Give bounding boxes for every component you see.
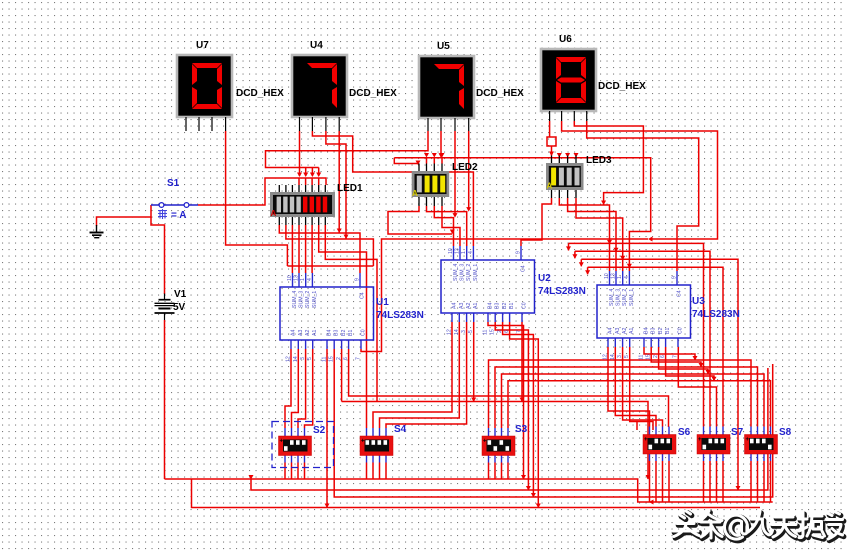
wire S3 bottom pins to rail: [489, 463, 509, 480]
wire U3 B1 drop: [666, 347, 714, 381]
wire bottom rail 1: [165, 479, 773, 502]
svg-text:S1: S1: [167, 178, 180, 189]
wire bottom rail 2: [251, 368, 768, 490]
svg-text:74LS283N: 74LS283N: [538, 286, 586, 297]
wire LED3 pin3 to U3: [568, 198, 616, 271]
svg-text:U7: U7: [196, 40, 209, 51]
svg-text:= A: = A: [171, 210, 186, 221]
bargraph LED2: [412, 162, 478, 206]
wire U4 pin4: [338, 131, 340, 233]
svg-text:A: A: [271, 209, 277, 218]
wire LED1 pin8 to bus: [325, 225, 377, 402]
dip switch S8: [745, 427, 792, 462]
wire U3 A2 to S6: [623, 347, 663, 427]
svg-text:DCD_HEX: DCD_HEX: [349, 88, 397, 99]
wire LED1 pin2 mesh loop: [286, 225, 374, 266]
svg-text:U6: U6: [559, 34, 572, 45]
wire U3 B2 drop: [659, 347, 708, 374]
wire rail S3-S8 row2: [495, 367, 758, 428]
svg-text:74LS283N: 74LS283N: [692, 309, 740, 320]
wire U3 A3 to S6: [615, 347, 656, 427]
wire rail S3-S8 row1: [489, 360, 752, 428]
wire U3 B4 drop: [644, 347, 695, 360]
battery V1: [155, 289, 187, 320]
dip switch S7: [697, 427, 744, 462]
wire adder-output rail to S7 pin1: [569, 243, 704, 426]
wire U1 A1 to S2: [305, 349, 313, 428]
wire stubs rail178 to LED1 pins: [299, 178, 319, 185]
wire LED2 bottom pin2: [427, 206, 467, 246]
bargraph LED3: [546, 155, 612, 198]
wire S1 to ground: [97, 205, 152, 226]
svg-text:S8: S8: [779, 427, 792, 438]
wire U2 B4 down: [488, 322, 524, 479]
wire mesh rail 266: [287, 265, 373, 267]
wire U3 B3 drop: [651, 347, 701, 367]
svg-text:U2: U2: [538, 273, 551, 284]
wire long rail157 to U3: [394, 158, 650, 271]
wire adder-output rail to S7 pin2: [575, 251, 710, 426]
wire LED1 pins3-6 to U1 inputs: [292, 225, 312, 273]
op-amp U1 74LS283N adder: [280, 273, 424, 362]
wire U1 C0 up and right rail239: [361, 239, 648, 352]
svg-text:U4: U4: [310, 40, 323, 51]
watermark 头条 @九天揽梦: [673, 511, 844, 541]
dip switch S2: [279, 425, 326, 463]
wire adder-output rail to S7 pin4: [588, 267, 723, 426]
wire U5 pin4 down: [468, 131, 470, 210]
dip switch S6: [643, 427, 691, 462]
wire U2 A3 to S4: [380, 322, 460, 428]
wire U5 pin2 to rail158: [440, 131, 442, 157]
wire cascade stubs: [569, 243, 588, 274]
wire U1 B4 down: [326, 349, 328, 508]
svg-text:A: A: [412, 189, 418, 198]
wire bottom rail 4 jog: [192, 479, 761, 508]
wire V1 minus down to bottom rail: [164, 320, 166, 479]
svg-text:S6: S6: [678, 427, 691, 438]
wire U5 pin1 long run to LED1: [266, 131, 429, 168]
svg-text:U1: U1: [376, 297, 389, 308]
wire U2 C0 to rail399: [521, 322, 523, 402]
wire rail158 drop to LED2 pin1: [394, 158, 418, 164]
wire rail S3-S8 row4: [508, 381, 771, 428]
wire S6 bottom pins to rail: [650, 461, 670, 502]
svg-text:S2: S2: [313, 425, 326, 436]
wire stubs rail157 to LED2 pins: [427, 157, 443, 164]
svg-text:U3: U3: [692, 296, 705, 307]
svg-text:U5: U5: [437, 41, 450, 52]
wire LED1 pin1 to U1 C4: [279, 225, 360, 273]
wire U2 A2 to S4: [386, 322, 467, 428]
svg-text:V1: V1: [174, 289, 187, 300]
wire U2 A1 to rail399: [473, 322, 475, 402]
ground: [90, 225, 104, 238]
svg-text:DCD_HEX: DCD_HEX: [236, 88, 284, 99]
wire rail S3-S8 row3: [502, 374, 765, 428]
wire U4 pin3: [326, 131, 346, 239]
svg-text:LED3: LED3: [586, 155, 612, 166]
wire S8 bottom pins to rail: [751, 461, 771, 502]
svg-text:LED2: LED2: [452, 162, 478, 173]
svg-text:DCD_HEX: DCD_HEX: [598, 81, 646, 92]
wire S4 bottom pins to rail: [367, 463, 387, 480]
7-seg display U5: [419, 41, 524, 131]
wire U2 B1 down: [510, 322, 539, 508]
7-seg display U4: [292, 40, 397, 131]
dip switch S4: [360, 424, 407, 463]
wire U6 pin4 loop to U3 C4: [587, 121, 699, 271]
wire U4 pin1 down: [299, 131, 301, 176]
wire LED2 bottom pin1: [388, 206, 452, 234]
wire U4 pin2 to U2: [312, 131, 473, 246]
svg-text:S4: S4: [394, 424, 407, 435]
wire U1 B2 to rail399: [341, 349, 343, 402]
svg-text:5V: 5V: [173, 302, 186, 313]
U3 74LS283N adder: [597, 271, 740, 360]
junction arrows: [297, 173, 302, 178]
dip switch S3: [482, 424, 528, 463]
wire U6 pin2 big loop right: [562, 121, 718, 239]
wire U1 B1 to S6: [349, 349, 669, 427]
switch S1: [151, 178, 198, 221]
bargraph LED1: [270, 183, 363, 225]
wire LED3 pin4 to U3: [576, 198, 623, 271]
wire U3 A4 to S6: [608, 347, 650, 427]
U2 74LS283N adder: [441, 246, 586, 335]
svg-text:A: A: [547, 182, 553, 191]
wire S2 bottom pins to rail: [285, 463, 305, 480]
svg-text:74LS283N: 74LS283N: [376, 310, 424, 321]
svg-text:S7: S7: [731, 427, 744, 438]
svg-text:DCD_HEX: DCD_HEX: [476, 88, 524, 99]
wire LED3 pin1 to U2 C4: [521, 198, 552, 246]
wire U7 pin4 down-around: [226, 131, 288, 266]
wire U3 A1 jog box at S6: [630, 347, 653, 430]
wire U2 B3 down: [495, 322, 528, 490]
wire LED2 bottom pin3: [434, 206, 453, 246]
wire U2 B2 down: [503, 322, 534, 497]
7-seg display U7: [177, 40, 284, 131]
wire U2 A4 to S4: [373, 322, 452, 428]
svg-text:LED1: LED1: [337, 183, 363, 194]
wire S7 bottom pins to rail: [704, 461, 724, 502]
wire U1 A4 to S2: [285, 349, 291, 428]
wire S1 to LED1 top rail: [198, 178, 326, 205]
wire U1 A3 to S2: [292, 349, 299, 428]
wire U3 C0 to S7: [678, 347, 716, 427]
wire U5 pin3 down: [454, 131, 456, 216]
wire U6 pin3 loop: [574, 121, 643, 205]
wire LED1 pin7 to S4: [319, 225, 367, 428]
wire U1 A2 to S2: [298, 349, 306, 428]
selection dashed box around S2: [272, 422, 334, 468]
wire LED3 pin2 to U3: [559, 198, 609, 271]
wire bottom rail 3: [334, 349, 773, 497]
wire U6 pin1 jog box to LED3: [547, 121, 556, 146]
wire rail 399: [342, 402, 648, 480]
svg-text:S3: S3: [515, 424, 528, 435]
7-seg display U6: [541, 34, 646, 121]
wire adder-output rail row3: [581, 259, 738, 490]
wire LED2 bottom pin4: [442, 206, 460, 246]
wire S1 to battery V1: [151, 217, 165, 294]
